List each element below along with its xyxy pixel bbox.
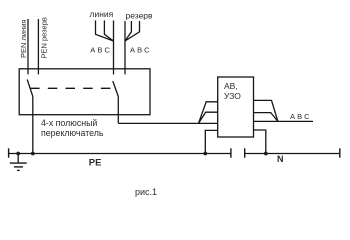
ground symbol bar 1 bbox=[10, 162, 27, 164]
wire phase line to RCD bbox=[118, 122, 217, 124]
wire line bundle main conductor bbox=[113, 20, 115, 74]
junction dot N input tap bbox=[203, 152, 207, 156]
svg-text:4-х полюсный: 4-х полюсный bbox=[41, 118, 97, 128]
junction dot PEN to PE bbox=[31, 152, 35, 156]
svg-text:PEN линия: PEN линия bbox=[19, 20, 28, 58]
wire N input loop left bbox=[205, 130, 217, 153]
PE busbar left terminal tick bbox=[8, 148, 10, 157]
N busbar bbox=[245, 153, 340, 155]
svg-text:АВ,: АВ, bbox=[224, 81, 238, 91]
wire line bundle prong A bbox=[96, 20, 114, 41]
wire N output loop right bbox=[254, 130, 266, 154]
switch S1 enclosure box bbox=[19, 69, 150, 115]
PE busbar bbox=[9, 153, 231, 155]
wire reserve bundle main conductor bbox=[124, 21, 126, 74]
ground symbol bar 2 bbox=[14, 166, 23, 168]
svg-text:переключатель: переключатель bbox=[41, 128, 104, 138]
wire phase output down from switch bbox=[117, 97, 119, 124]
svg-text:УЗО: УЗО bbox=[224, 91, 241, 101]
wire PEN output to PE busbar bbox=[32, 96, 34, 153]
svg-text:рис.1: рис.1 bbox=[135, 187, 157, 197]
svg-text:PE: PE bbox=[89, 157, 102, 168]
svg-text:резерв: резерв bbox=[126, 11, 154, 21]
ground symbol bar 3 bbox=[17, 169, 20, 171]
svg-text:линия: линия bbox=[90, 9, 114, 19]
wire reserve bundle prong B bbox=[125, 21, 131, 41]
ground conductor drop bbox=[17, 154, 19, 164]
svg-text:PEN резерв: PEN резерв bbox=[40, 17, 49, 58]
svg-text:А В С: А В С bbox=[90, 45, 110, 54]
svg-text:N: N bbox=[277, 154, 284, 164]
wire PEN line input bbox=[27, 19, 29, 74]
junction dot ground tap bbox=[16, 152, 20, 156]
switch S1 pole 1 blade bbox=[27, 79, 33, 96]
switch S1 pole 2 blade bbox=[113, 81, 119, 97]
mechanical coupling dashed link bbox=[30, 87, 111, 89]
wire fan diagonal to phase B bbox=[199, 112, 218, 123]
wire phase A output bbox=[254, 100, 278, 121]
wire phase B output bbox=[254, 113, 278, 122]
N busbar left terminal tick bbox=[244, 148, 246, 157]
svg-text:А В С: А В С bbox=[290, 112, 310, 121]
N busbar right terminal tick bbox=[339, 148, 341, 157]
wire line bundle prong B bbox=[104, 20, 113, 41]
wire PEN reserve input bbox=[37, 19, 39, 74]
wire fan diagonal to phase A bbox=[199, 102, 218, 124]
breaker U1 AB+UZO box bbox=[218, 77, 254, 137]
wire reserve bundle prong C bbox=[125, 21, 140, 41]
svg-text:А В С: А В С bbox=[130, 45, 150, 54]
junction dot N output tap bbox=[264, 152, 268, 156]
PE busbar right terminal tick bbox=[230, 148, 232, 157]
wire phase output line ABC bbox=[254, 120, 314, 122]
